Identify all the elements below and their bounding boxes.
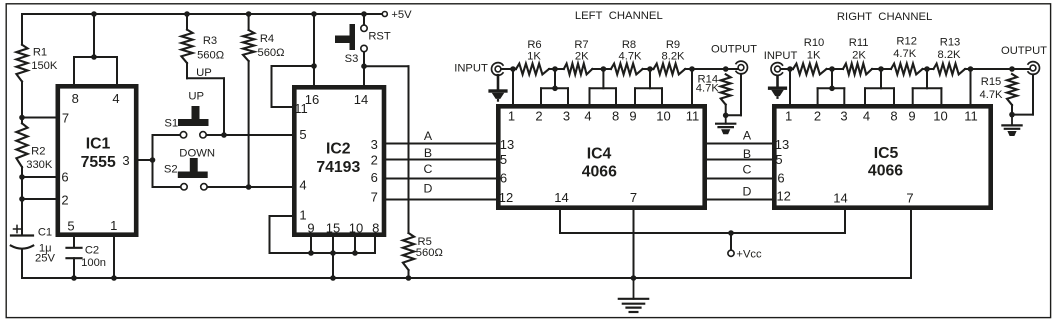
svg-text:4: 4 <box>299 178 306 193</box>
svg-text:4: 4 <box>863 108 870 123</box>
svg-text:6: 6 <box>61 170 68 185</box>
svg-text:R4: R4 <box>260 33 274 45</box>
svg-text:7: 7 <box>371 190 378 205</box>
svg-text:4.7K: 4.7K <box>618 51 642 63</box>
svg-text:+Vcc: +Vcc <box>736 248 762 260</box>
svg-text:10: 10 <box>933 108 947 123</box>
svg-text:R6: R6 <box>527 39 541 51</box>
svg-text:RIGHT CHANNEL: RIGHT CHANNEL <box>837 11 932 23</box>
svg-text:11: 11 <box>964 108 978 123</box>
svg-text:R12: R12 <box>896 36 917 48</box>
svg-text:R7: R7 <box>574 39 588 51</box>
svg-text:INPUT: INPUT <box>764 50 798 62</box>
svg-text:8: 8 <box>72 91 79 106</box>
svg-text:13: 13 <box>500 137 514 152</box>
svg-text:R2: R2 <box>31 146 45 158</box>
svg-text:OUTPUT: OUTPUT <box>1001 45 1047 57</box>
svg-text:1K: 1K <box>527 51 541 63</box>
svg-text:C2: C2 <box>85 245 99 257</box>
svg-text:74193: 74193 <box>316 159 360 176</box>
svg-text:IC5: IC5 <box>874 145 899 162</box>
svg-text:D: D <box>743 185 752 199</box>
svg-text:8: 8 <box>890 108 897 123</box>
svg-text:6: 6 <box>500 171 507 186</box>
svg-text:14: 14 <box>833 191 847 206</box>
svg-text:3: 3 <box>122 153 129 168</box>
svg-text:12: 12 <box>499 190 513 205</box>
svg-text:2K: 2K <box>852 50 866 62</box>
svg-text:S1: S1 <box>164 118 178 130</box>
svg-text:7: 7 <box>630 190 637 205</box>
svg-text:IC4: IC4 <box>587 146 612 163</box>
svg-text:7555: 7555 <box>81 154 116 171</box>
svg-text:S2: S2 <box>164 163 178 175</box>
svg-text:R15: R15 <box>981 76 1002 88</box>
svg-text:10: 10 <box>349 221 363 236</box>
svg-text:B: B <box>743 147 751 161</box>
svg-text:1: 1 <box>299 208 306 223</box>
svg-text:IC1: IC1 <box>86 136 111 153</box>
svg-text:INPUT: INPUT <box>454 63 488 75</box>
svg-text:560Ω: 560Ω <box>257 47 284 59</box>
svg-text:4.7K: 4.7K <box>893 48 917 60</box>
svg-text:IC2: IC2 <box>326 140 351 157</box>
svg-text:R5: R5 <box>418 236 432 248</box>
svg-text:R8: R8 <box>622 39 636 51</box>
svg-text:4066: 4066 <box>868 162 903 179</box>
svg-text:5: 5 <box>500 152 507 167</box>
svg-text:+5V: +5V <box>391 9 412 21</box>
svg-text:100n: 100n <box>81 257 106 269</box>
svg-text:150K: 150K <box>31 60 58 72</box>
svg-text:C: C <box>743 162 752 176</box>
svg-text:4066: 4066 <box>582 164 617 181</box>
svg-text:4.7K: 4.7K <box>979 89 1003 101</box>
svg-text:4: 4 <box>112 91 119 106</box>
svg-text:3: 3 <box>371 137 378 152</box>
svg-text:B: B <box>424 146 432 160</box>
svg-text:3: 3 <box>563 108 570 123</box>
svg-text:A: A <box>424 129 433 143</box>
svg-text:13: 13 <box>775 137 789 152</box>
svg-text:RST: RST <box>368 31 391 43</box>
svg-text:14: 14 <box>354 92 368 107</box>
svg-text:560Ω: 560Ω <box>416 247 443 259</box>
svg-text:1: 1 <box>110 218 117 233</box>
svg-text:LEFT CHANNEL: LEFT CHANNEL <box>575 10 663 22</box>
svg-text:R13: R13 <box>940 37 961 49</box>
svg-text:4.7K: 4.7K <box>696 82 720 94</box>
svg-text:OUTPUT: OUTPUT <box>711 44 757 56</box>
svg-text:12: 12 <box>776 189 790 204</box>
svg-text:8.2K: 8.2K <box>661 51 685 63</box>
svg-text:5: 5 <box>67 219 74 234</box>
svg-text:10: 10 <box>656 108 670 123</box>
svg-text:2: 2 <box>814 108 821 123</box>
svg-text:1: 1 <box>508 108 515 123</box>
svg-text:A: A <box>743 129 752 143</box>
svg-text:6: 6 <box>371 170 378 185</box>
svg-text:15: 15 <box>326 220 340 235</box>
svg-text:8.2K: 8.2K <box>937 49 961 61</box>
svg-text:5: 5 <box>775 152 782 167</box>
svg-text:2: 2 <box>61 193 68 208</box>
svg-text:1K: 1K <box>807 50 821 62</box>
svg-text:14: 14 <box>554 190 568 205</box>
svg-text:UP: UP <box>196 67 212 79</box>
svg-text:5: 5 <box>299 127 306 142</box>
svg-text:25V: 25V <box>35 252 55 264</box>
svg-text:S3: S3 <box>345 53 359 65</box>
svg-text:4: 4 <box>584 108 591 123</box>
svg-text:2: 2 <box>535 108 542 123</box>
svg-text:1: 1 <box>785 108 792 123</box>
svg-text:D: D <box>424 181 433 195</box>
svg-text:8: 8 <box>612 108 619 123</box>
svg-text:560Ω: 560Ω <box>197 49 224 61</box>
svg-text:DOWN: DOWN <box>179 148 215 160</box>
svg-text:2K: 2K <box>575 51 589 63</box>
svg-text:3: 3 <box>840 108 847 123</box>
svg-text:7: 7 <box>62 110 69 125</box>
svg-text:9: 9 <box>908 108 915 123</box>
svg-text:R10: R10 <box>804 37 825 49</box>
svg-text:2: 2 <box>371 153 378 168</box>
svg-text:C: C <box>424 162 433 176</box>
svg-text:11: 11 <box>686 108 700 123</box>
svg-text:6: 6 <box>777 171 784 186</box>
svg-text:9: 9 <box>307 220 314 235</box>
svg-text:8: 8 <box>372 220 379 235</box>
svg-text:7: 7 <box>906 191 913 206</box>
svg-text:9: 9 <box>629 108 636 123</box>
svg-text:R11: R11 <box>849 37 869 49</box>
svg-text:R9: R9 <box>666 39 680 51</box>
svg-text:R3: R3 <box>203 35 217 47</box>
svg-text:C1: C1 <box>38 227 52 239</box>
svg-text:11: 11 <box>294 101 308 116</box>
svg-text:330K: 330K <box>26 159 53 171</box>
svg-text:UP: UP <box>188 90 204 102</box>
svg-text:R1: R1 <box>33 47 47 59</box>
